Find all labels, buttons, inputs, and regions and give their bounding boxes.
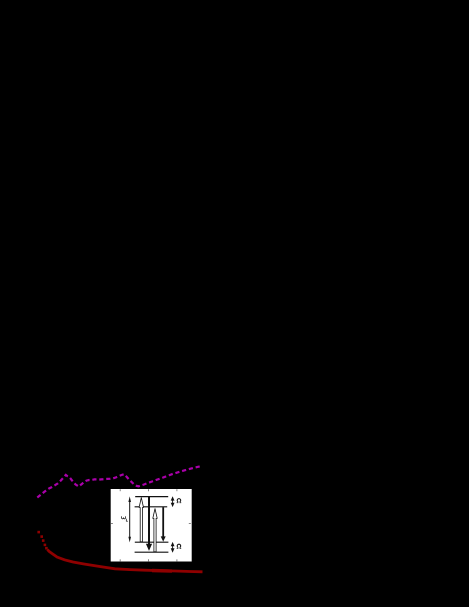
upper Omega splitting double arrow [171,496,175,507]
dark red curve (lower decaying trace) [47,550,202,572]
level line 3 (lower, top) [135,541,169,543]
lower Omega splitting double arrow [171,542,175,553]
dark red marker clump on lower trace [152,569,172,573]
level line 2 (upper, bottom) [135,506,168,508]
dark red dotted curve: leading separated dots [37,531,47,550]
lower Omega label [177,544,182,548]
hollow up arrow C (line4 to line2) [153,509,157,552]
inset white panel [111,489,192,562]
inset edge tick marks [111,489,191,561]
upper Omega label [177,499,182,503]
omega_L double-headed arrow [128,496,131,542]
hollow up arrow A (line3 to line1) [139,498,143,542]
magenta dashed curve (upper spectrum trace) [37,466,202,498]
thick down arrow B (line1 to line4) [146,497,152,551]
thick down arrow D (line2 to line3) [161,507,166,541]
level line 1 (upper, top) [135,496,168,498]
level line 4 (lower, bottom) [135,551,169,553]
omega_L label [122,516,128,521]
